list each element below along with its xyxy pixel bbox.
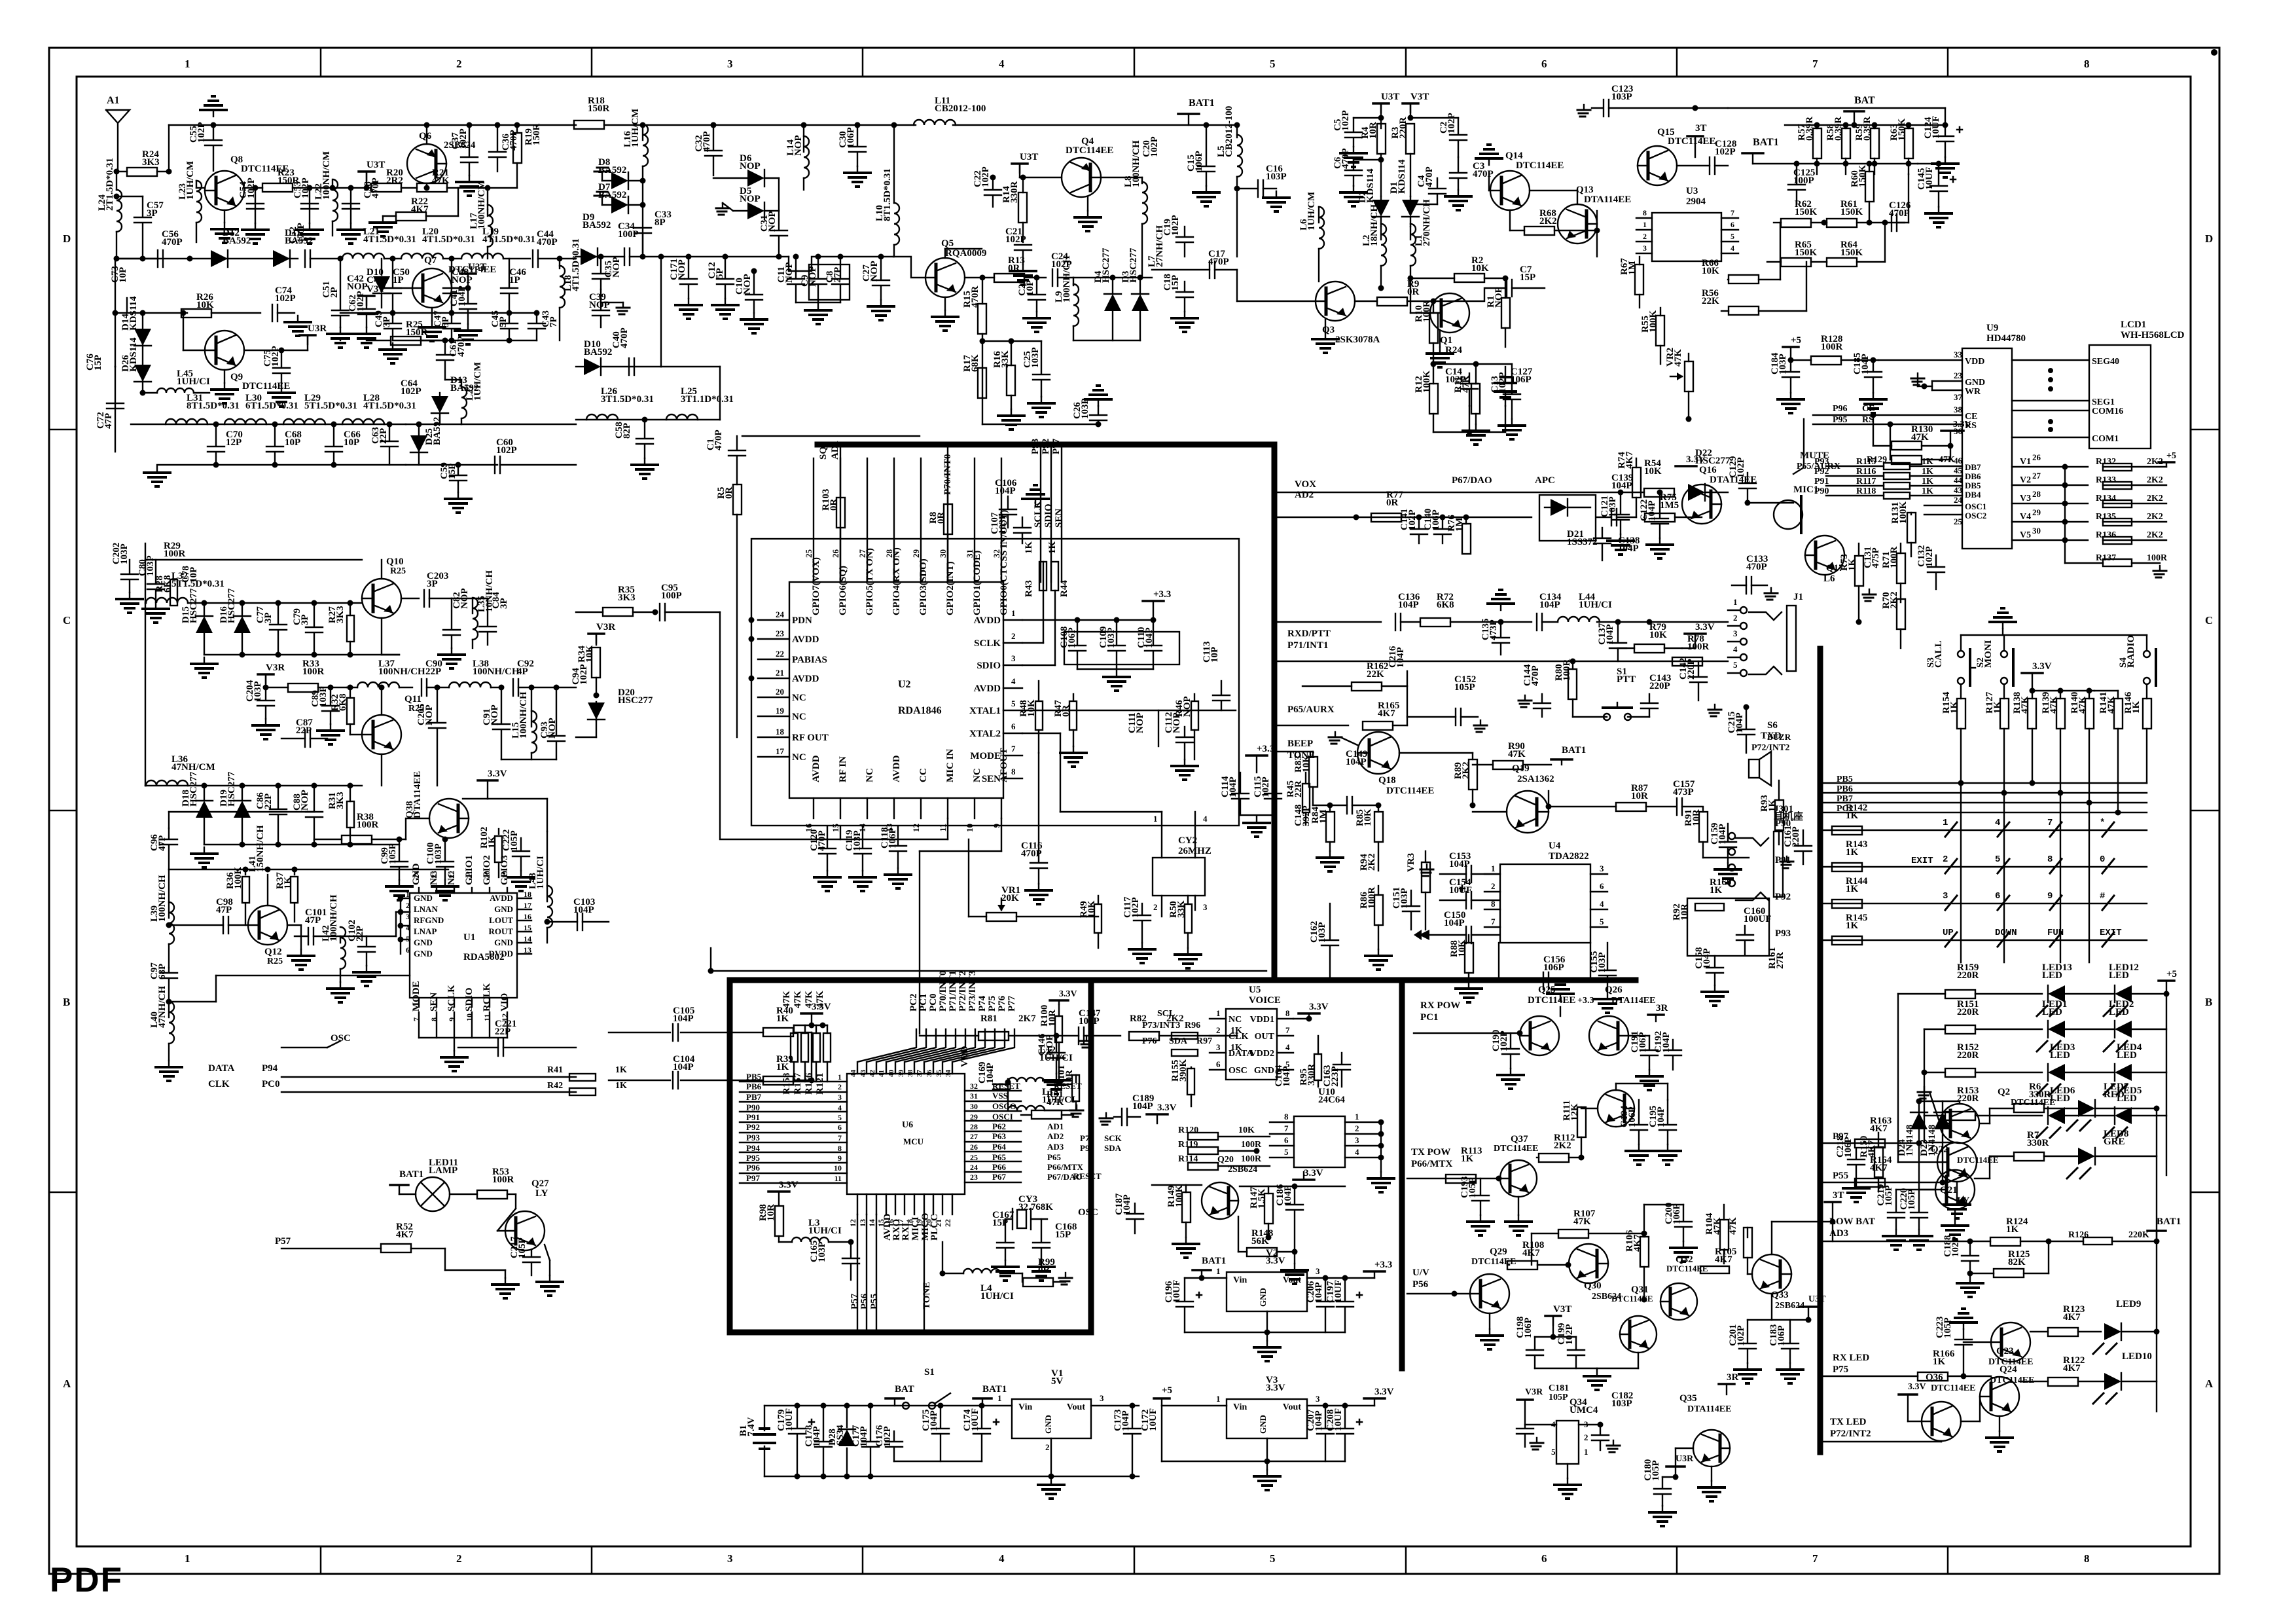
svg-text:27P: 27P	[833, 267, 843, 283]
svg-text:1K: 1K	[615, 1065, 627, 1075]
svg-text:1K: 1K	[1846, 847, 1859, 858]
svg-text:2: 2	[1584, 1432, 1588, 1442]
inductor chain L26 L25 bottom	[576, 419, 720, 420]
capacitor C54 to ground	[255, 188, 256, 223]
svg-text:D: D	[2205, 232, 2213, 245]
svg-text:耳机座: 耳机座	[1774, 811, 1803, 822]
svg-text:GPIO5(TX ON): GPIO5(TX ON)	[865, 548, 875, 615]
top rail continues	[604, 124, 916, 126]
svg-text:GPIO0(CTCSS IN/OUT): GPIO0(CTCSS IN/OUT)	[999, 510, 1009, 615]
svg-text:5: 5	[1600, 917, 1604, 926]
diodes D14 D26 KDS114	[142, 313, 143, 393]
svg-text:Q26: Q26	[1605, 985, 1623, 995]
svg-text:R157: R157	[793, 1072, 803, 1095]
svg-text:100R: 100R	[1241, 1154, 1262, 1164]
transistor Q18 DTC114EE	[1357, 732, 1399, 774]
svg-text:104P: 104P	[1122, 1194, 1132, 1215]
svg-text:2: 2	[456, 58, 462, 70]
capacitor C59 15P	[457, 465, 459, 474]
svg-text:P93: P93	[746, 1133, 760, 1142]
svg-text:47K: 47K	[1508, 749, 1526, 759]
ground under U1 bottom	[419, 1037, 507, 1038]
svg-text:RF OUT: RF OUT	[792, 733, 829, 743]
svg-text:25: 25	[970, 1153, 978, 1162]
svg-text:45: 45	[1954, 465, 1963, 475]
svg-text:RF IN: RF IN	[838, 756, 848, 782]
svg-text:GND: GND	[1254, 1066, 1274, 1076]
svg-text:1UH/CI: 1UH/CI	[1579, 600, 1612, 610]
svg-text:4K7: 4K7	[1378, 708, 1395, 719]
svg-text:1K: 1K	[1846, 921, 1859, 931]
svg-text:2: 2	[1216, 1025, 1221, 1035]
svg-text:6: 6	[1600, 881, 1604, 891]
svg-text:R132: R132	[2096, 457, 2116, 467]
svg-text:SDA: SDA	[1169, 1036, 1188, 1046]
svg-text:10K: 10K	[1649, 630, 1667, 640]
svg-text:#: #	[2100, 891, 2105, 902]
capacitor C48 NOP	[451, 259, 452, 287]
svg-text:Q20: Q20	[1217, 1155, 1234, 1165]
svg-text:5: 5	[1731, 232, 1734, 241]
svg-text:NC: NC	[1229, 1015, 1242, 1025]
svg-text:OSC: OSC	[1229, 1066, 1247, 1076]
svg-text:41: 41	[878, 1070, 886, 1077]
zone column divider	[862, 48, 864, 77]
afout feed down	[1001, 818, 1002, 851]
svg-text:P67: P67	[992, 1172, 1006, 1182]
capacitor C70	[215, 424, 217, 445]
svg-text:AD3: AD3	[1047, 1142, 1064, 1152]
svg-text:3.3V: 3.3V	[1266, 1256, 1285, 1266]
svg-text:4: 4	[406, 923, 410, 932]
svg-text:4T1.5D*0.31: 4T1.5D*0.31	[363, 234, 416, 245]
svg-text:V4: V4	[2020, 512, 2031, 522]
svg-text:56K: 56K	[1251, 1236, 1269, 1247]
svg-text:S1: S1	[924, 1367, 935, 1377]
svg-text:P91: P91	[746, 1112, 760, 1122]
wire rail to L5	[1234, 122, 1240, 128]
svg-text:470P: 470P	[1473, 169, 1494, 179]
ground cluster Q31	[1535, 1368, 1597, 1369]
svg-text:29: 29	[2032, 507, 2041, 517]
svg-text:104P: 104P	[1539, 600, 1560, 610]
svg-text:1UH/CI: 1UH/CI	[808, 1226, 842, 1236]
svg-text:1P: 1P	[509, 275, 520, 285]
svg-text:U1: U1	[463, 932, 475, 943]
svg-text:PB5: PB5	[746, 1072, 762, 1082]
svg-text:MONI: MONI	[1983, 640, 1994, 668]
svg-text:3K3: 3K3	[142, 157, 160, 168]
inductor chain L21 L20 L19 top	[342, 253, 384, 259]
diode D11 BA592	[289, 250, 291, 267]
inductor L17	[487, 210, 488, 216]
svg-text:V2: V2	[2020, 475, 2031, 485]
wire SCLK SDIO to right	[1022, 642, 1043, 644]
svg-text:OSC: OSC	[331, 1033, 351, 1044]
svg-text:220R: 220R	[1398, 117, 1408, 139]
svg-text:BA592: BA592	[432, 417, 442, 445]
svg-text:CY2: CY2	[1178, 835, 1197, 846]
svg-text:104P: 104P	[1283, 1185, 1293, 1206]
svg-text:23: 23	[429, 871, 439, 879]
wire Q6 collector	[426, 183, 427, 188]
svg-text:LED9: LED9	[2116, 1299, 2141, 1309]
inductor L23	[196, 181, 197, 188]
wire XTAL2	[1022, 733, 1060, 734]
svg-text:1: 1	[1216, 1008, 1221, 1018]
svg-text:1K: 1K	[1047, 541, 1058, 555]
svg-text:1: 1	[1943, 818, 1948, 828]
svg-text:1: 1	[1491, 864, 1496, 873]
svg-text:7: 7	[1731, 208, 1734, 217]
svg-text:P92: P92	[746, 1122, 760, 1132]
battery bottom rail	[764, 1476, 1139, 1477]
svg-text:SEN: SEN	[429, 993, 439, 1012]
svg-text:P63: P63	[992, 1131, 1006, 1141]
svg-text:Q13: Q13	[1576, 185, 1594, 195]
svg-text:MIC IN: MIC IN	[945, 749, 956, 782]
op-amp U3 2904	[1652, 213, 1721, 261]
svg-text:8: 8	[1643, 208, 1647, 217]
svg-text:12K: 12K	[1570, 1103, 1580, 1121]
svg-text:NOP: NOP	[611, 257, 622, 278]
svg-text:1K: 1K	[1922, 467, 1933, 477]
svg-text:5P: 5P	[440, 316, 451, 327]
svg-text:LED: LED	[2042, 970, 2062, 981]
svg-text:P72/INT2: P72/INT2	[958, 970, 968, 1012]
zone row divider	[49, 429, 77, 431]
svg-text:R116: R116	[1856, 467, 1876, 477]
svg-text:44: 44	[1954, 475, 1963, 485]
svg-text:V3T: V3T	[1553, 1304, 1571, 1315]
svg-text:AVDD: AVDD	[792, 674, 819, 684]
transistor Q15 DTC114EE	[1638, 146, 1677, 185]
svg-text:P66/MTX: P66/MTX	[1411, 1159, 1452, 1169]
svg-text:4: 4	[999, 58, 1005, 70]
capacitor C31 NOP	[778, 211, 780, 229]
zone column divider	[1676, 48, 1678, 77]
svg-text:GRE: GRE	[2104, 1137, 2125, 1147]
svg-text:U3R: U3R	[308, 323, 327, 334]
svg-text:LNAN: LNAN	[414, 904, 438, 914]
svg-text:8: 8	[1284, 1112, 1289, 1122]
svg-text:105P: 105P	[1943, 1317, 1953, 1338]
svg-text:10K: 10K	[196, 300, 214, 310]
svg-text:Q6: Q6	[419, 131, 432, 141]
svg-text:DB7: DB7	[1965, 462, 1981, 472]
svg-text:NOP: NOP	[742, 274, 753, 295]
svg-text:23: 23	[1954, 371, 1963, 380]
svg-text:LED: LED	[2117, 1050, 2137, 1061]
svg-text:P57: P57	[850, 1293, 860, 1309]
ground under Q34	[1567, 1464, 1568, 1478]
svg-text:LED: LED	[2109, 1007, 2129, 1017]
svg-text:15P: 15P	[1055, 1230, 1071, 1240]
svg-text:3: 3	[1011, 653, 1016, 663]
bottom rail region1	[157, 464, 406, 465]
svg-text:30: 30	[970, 1102, 978, 1111]
svg-text:104P: 104P	[1605, 624, 1615, 645]
svg-text:CC: CC	[918, 768, 929, 782]
svg-text:UP: UP	[1943, 928, 1954, 938]
svg-text:V3R: V3R	[1525, 1387, 1543, 1397]
transistor Q19 2SA1362	[1507, 791, 1549, 833]
svg-text:43: 43	[859, 1070, 867, 1078]
wire C40 riser	[660, 257, 662, 367]
svg-text:7P: 7P	[548, 316, 559, 327]
svg-text:2SA1362: 2SA1362	[1517, 774, 1554, 784]
svg-text:392P: 392P	[1301, 805, 1312, 826]
svg-text:R115: R115	[1856, 457, 1876, 467]
svg-text:22: 22	[447, 871, 456, 879]
svg-text:BAT: BAT	[895, 1384, 914, 1395]
capacitor C10 NOP	[753, 271, 755, 293]
svg-text:D: D	[63, 232, 71, 245]
svg-text:220P: 220P	[1649, 681, 1670, 691]
svg-text:5T1.5D*0.31: 5T1.5D*0.31	[304, 401, 357, 411]
svg-text:2P: 2P	[329, 287, 340, 298]
svg-text:5V: 5V	[1051, 1376, 1064, 1387]
wire RF input loop	[720, 612, 840, 839]
svg-text:+3.3: +3.3	[1257, 744, 1274, 754]
svg-text:SCLK: SCLK	[1033, 501, 1043, 528]
svg-text:100R: 100R	[1367, 887, 1377, 909]
inductor L16	[643, 124, 648, 166]
svg-text:AD2: AD2	[1295, 490, 1314, 500]
transistor Q38b top	[1598, 1090, 1634, 1127]
svg-text:105P: 105P	[517, 1237, 528, 1258]
diode D13 BA592	[431, 412, 448, 414]
svg-text:R133: R133	[2096, 475, 2116, 485]
svg-text:150R: 150R	[588, 103, 610, 114]
svg-text:2K2: 2K2	[1461, 761, 1471, 779]
svg-text:47K: 47K	[1728, 1217, 1738, 1235]
svg-text:47K: 47K	[1573, 1216, 1591, 1227]
svg-text:9: 9	[2047, 891, 2053, 902]
svg-text:R134: R134	[2096, 494, 2116, 503]
svg-text:MIC1: MIC1	[1793, 484, 1818, 495]
svg-text:1: 1	[1011, 608, 1016, 618]
power taps U3T V3T region3	[1373, 102, 1389, 105]
svg-text:3K3: 3K3	[335, 606, 346, 623]
svg-text:10UF: 10UF	[1333, 1408, 1344, 1431]
svg-text:27: 27	[2032, 471, 2041, 481]
svg-text:3: 3	[1943, 891, 1948, 902]
svg-text:SEN: SEN	[982, 774, 1001, 784]
zone column divider	[1134, 48, 1136, 77]
svg-text:1UH/CI: 1UH/CI	[1042, 1095, 1075, 1105]
MCU U6 body	[847, 1074, 965, 1194]
capacitor C37 to ground	[467, 122, 473, 128]
wire riser to top rail	[168, 125, 170, 172]
main bus D-row	[115, 258, 298, 259]
svg-text:P76: P76	[997, 995, 1007, 1012]
svg-text:OSCI: OSCI	[992, 1112, 1013, 1122]
svg-text:C181: C181	[1549, 1383, 1569, 1393]
svg-text:COM1: COM1	[2092, 434, 2119, 444]
svg-text:25: 25	[1954, 517, 1963, 526]
svg-text:2K2: 2K2	[2147, 512, 2163, 522]
svg-text:105P: 105P	[509, 830, 520, 851]
ground for WR	[1917, 373, 1918, 378]
svg-text:8: 8	[838, 1144, 842, 1153]
svg-text:4K7: 4K7	[411, 204, 429, 215]
svg-text:100NH/CH: 100NH/CH	[518, 691, 529, 739]
svg-text:46: 46	[1954, 456, 1963, 465]
svg-text:P74: P74	[1080, 1133, 1094, 1143]
svg-text:3.3V: 3.3V	[488, 769, 507, 779]
svg-text:103P: 103P	[1611, 92, 1632, 102]
svg-text:35: 35	[935, 1070, 943, 1078]
svg-text:100R: 100R	[1241, 1140, 1262, 1150]
svg-text:Q24: Q24	[2000, 1364, 2017, 1375]
svg-text:2904: 2904	[1686, 196, 1706, 207]
svg-text:39: 39	[897, 1070, 905, 1078]
svg-text:102P: 102P	[275, 293, 296, 304]
wire from row3 down	[168, 812, 170, 828]
svg-text:PDF: PDF	[50, 1561, 123, 1599]
row C136 R72 to L44	[1274, 621, 1381, 623]
svg-text:U3T: U3T	[1808, 1294, 1826, 1304]
svg-text:104P: 104P	[995, 486, 1016, 496]
svg-text:R96: R96	[1185, 1021, 1200, 1030]
svg-text:10P: 10P	[118, 267, 128, 283]
svg-text:CB2012-100: CB2012-100	[935, 103, 986, 114]
svg-text:10P: 10P	[285, 437, 300, 448]
svg-text:47NH/CM: 47NH/CM	[171, 762, 215, 773]
svg-text:DTC114EE: DTC114EE	[1611, 1294, 1653, 1304]
capacitor C46	[509, 259, 510, 287]
svg-text:100UF: 100UF	[1744, 914, 1772, 924]
svg-text:BAT: BAT	[1854, 95, 1875, 106]
svg-text:A: A	[2205, 1377, 2214, 1390]
svg-text:470P: 470P	[713, 429, 724, 450]
ground under Q7	[431, 308, 433, 321]
transistor Q10 R25	[362, 579, 401, 618]
V2 ground	[1185, 1332, 1345, 1333]
svg-text:4K7: 4K7	[1870, 1163, 1888, 1173]
svg-text:R137: R137	[2096, 553, 2116, 563]
svg-text:MODE: MODE	[970, 751, 1001, 761]
svg-text:102P: 102P	[1446, 113, 1457, 134]
svg-text:Q5: Q5	[941, 238, 954, 249]
svg-text:10K: 10K	[1471, 263, 1489, 274]
svg-text:V1: V1	[2020, 457, 2031, 467]
svg-text:100NH/CM: 100NH/CM	[321, 151, 332, 200]
svg-text:DTA114EE: DTA114EE	[1611, 996, 1655, 1006]
capacitor C75 102P	[244, 350, 281, 351]
svg-text:2: 2	[1355, 1123, 1359, 1133]
svg-text:7: 7	[838, 1133, 842, 1142]
svg-text:29: 29	[911, 549, 921, 558]
svg-text:RED: RED	[2104, 1089, 2125, 1100]
svg-text:10K: 10K	[1702, 266, 1719, 276]
svg-text:3.3V: 3.3V	[1157, 1103, 1177, 1113]
capacitor C30 106P	[855, 122, 861, 128]
svg-text:100K: 100K	[1422, 371, 1432, 393]
svg-text:0R: 0R	[1038, 1265, 1050, 1275]
svg-text:8: 8	[2047, 854, 2053, 865]
svg-text:P66: P66	[992, 1162, 1006, 1172]
svg-text:102P: 102P	[496, 445, 517, 456]
svg-text:1: 1	[406, 890, 410, 899]
svg-text:WH-H568LCD: WH-H568LCD	[2121, 330, 2185, 340]
svg-text:100R: 100R	[1821, 342, 1843, 352]
svg-text:103P: 103P	[253, 681, 263, 702]
svg-text:EXIT: EXIT	[1911, 856, 1933, 866]
svg-text:Q16: Q16	[1699, 465, 1717, 475]
svg-text:2K2: 2K2	[1539, 216, 1557, 227]
svg-text:1K: 1K	[1846, 884, 1859, 894]
zone row divider	[49, 1192, 77, 1194]
svg-text:1: 1	[1153, 814, 1158, 824]
svg-text:Q1: Q1	[1440, 335, 1452, 346]
svg-text:106P: 106P	[1543, 962, 1564, 973]
svg-text:+3.3: +3.3	[1153, 589, 1171, 600]
ground right of U10	[1380, 1158, 1382, 1172]
svg-text:38: 38	[906, 1070, 914, 1078]
svg-text:3.3V: 3.3V	[2032, 661, 2052, 672]
svg-text:1UH/CM: 1UH/CM	[1306, 192, 1317, 230]
svg-text:DB6: DB6	[1965, 471, 1981, 481]
svg-text:GPIO3: GPIO3	[499, 855, 510, 885]
Q11 emitter down	[381, 754, 382, 786]
svg-text:Vin: Vin	[1018, 1402, 1032, 1412]
svg-text:22P: 22P	[296, 725, 312, 736]
svg-text:3: 3	[727, 58, 733, 70]
svg-text:1K: 1K	[1922, 486, 1933, 496]
svg-text:4: 4	[1355, 1147, 1359, 1157]
ground under Q9	[224, 370, 225, 383]
svg-text:RQA0009: RQA0009	[945, 248, 986, 259]
svg-text:VR3: VR3	[1406, 853, 1416, 872]
capacitor C41 104P	[465, 285, 471, 291]
svg-text:3.3V: 3.3V	[1266, 1383, 1285, 1393]
diode D10C40	[373, 293, 390, 294]
svg-text:5: 5	[1733, 660, 1738, 670]
svg-text:4: 4	[1995, 818, 2000, 828]
svg-text:6: 6	[1541, 58, 1547, 70]
svg-text:R97: R97	[1196, 1036, 1212, 1046]
capacitor C74	[272, 304, 273, 321]
svg-text:15: 15	[831, 824, 840, 833]
transistor Q8 DTC114EE	[205, 171, 244, 210]
power tap V3R region6	[588, 632, 604, 635]
svg-text:3T1.5D*0.31: 3T1.5D*0.31	[601, 394, 654, 405]
svg-text:VOICE: VOICE	[1249, 995, 1281, 1006]
svg-text:104P: 104P	[1228, 776, 1238, 797]
svg-text:2K2: 2K2	[1367, 853, 1377, 871]
svg-text:3T: 3T	[1695, 123, 1707, 134]
svg-text:+5: +5	[2166, 969, 2177, 979]
U2 right pins	[1003, 619, 1022, 621]
svg-text:27R: 27R	[1775, 952, 1785, 969]
svg-text:BAT1: BAT1	[1562, 745, 1586, 756]
svg-text:1: 1	[1355, 1112, 1359, 1122]
svg-text:UMC4: UMC4	[1570, 1405, 1598, 1415]
svg-text:100K: 100K	[1174, 1185, 1185, 1208]
svg-text:3.3V: 3.3V	[1953, 420, 1971, 429]
svg-text:U2: U2	[898, 679, 911, 690]
svg-text:10P: 10P	[1025, 280, 1035, 296]
svg-text:2K2: 2K2	[2147, 494, 2163, 503]
ground left of Q2	[1924, 1087, 1925, 1092]
svg-text:105P: 105P	[1884, 1185, 1894, 1206]
ground stubs left of D8 D7	[601, 172, 603, 181]
svg-text:Q23: Q23	[1996, 1346, 2014, 1357]
svg-text:OUT: OUT	[1255, 1032, 1275, 1042]
svg-text:VDD1: VDD1	[1250, 1015, 1274, 1025]
